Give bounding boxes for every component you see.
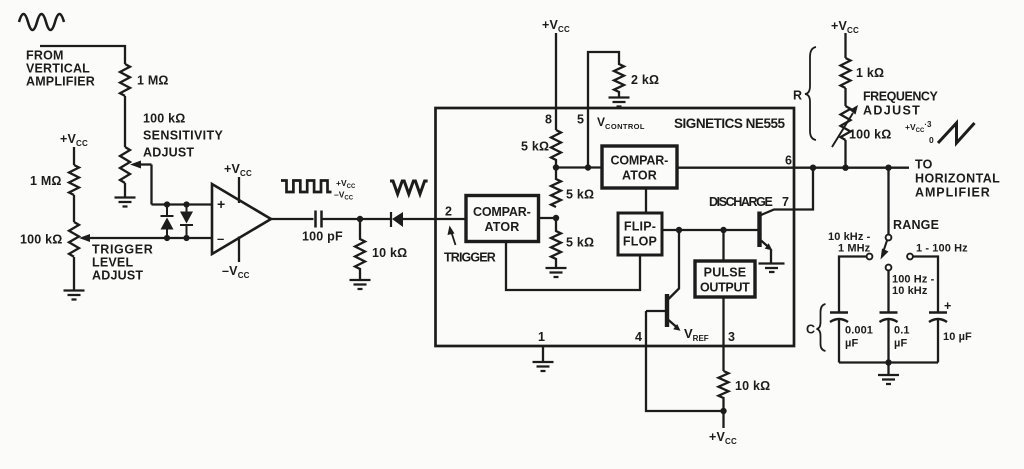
op-amp -Vcc pin (238, 237, 240, 263)
svg-text:100 pF: 100 pF (302, 230, 343, 244)
pin 5 wire with 2k bypass outside box (588, 52, 624, 168)
wire R2 to trigger pot (73, 195, 75, 222)
potentiometer 100k sensitivity (120, 147, 130, 183)
wire pot bottom to ground (124, 183, 126, 197)
ground under pin 1 (533, 362, 554, 371)
svg-text:COMPAR-: COMPAR- (473, 205, 531, 219)
switch contact middle (886, 265, 892, 271)
variable resistor 100k frequency adjust (841, 106, 851, 140)
svg-text:RANGE: RANGE (893, 218, 939, 232)
pin 4 wire to +Vcc node (646, 311, 724, 411)
junction divider middle (553, 215, 559, 221)
pulse output box (695, 261, 755, 297)
svg-text:1 - 100 Hz: 1 - 100 Hz (916, 243, 968, 255)
capacitor common rail (839, 361, 938, 363)
wire comparator bottom to flip-flop (506, 242, 640, 291)
wire +Vcc to 1k (844, 33, 846, 58)
pin 3 wire (722, 297, 724, 371)
diode D1 clamp (cathode up) (161, 205, 174, 239)
wire flip-flop to discharge transistor base (662, 229, 759, 231)
transistor Q2 discharge base bar (757, 212, 761, 248)
junction node at 10k (357, 216, 363, 222)
junction to pulse output (720, 227, 726, 233)
svg-text:100 kΩ: 100 kΩ (20, 233, 63, 247)
svg-text:5 kΩ: 5 kΩ (566, 188, 594, 202)
svg-text:ATOR: ATOR (484, 220, 519, 234)
resistor 1k (841, 58, 851, 88)
svg-text:FLIP-: FLIP- (624, 220, 656, 234)
svg-text:VERTICAL: VERTICAL (26, 62, 90, 76)
svg-text:100 kΩ: 100 kΩ (143, 112, 186, 126)
wire left contact to cap C1 (839, 257, 867, 313)
wire threshold comparator to flip-flop (645, 188, 647, 213)
transistor Q1 emitter with arrow (669, 320, 677, 327)
wire junction down to range switch pole (887, 168, 889, 235)
capacitor C1 0.001 uF (830, 313, 848, 323)
svg-text:10 kHz -: 10 kHz - (828, 231, 871, 243)
capacitor C 100 pF (316, 211, 322, 228)
svg-text:1 MΩ: 1 MΩ (137, 74, 169, 88)
svg-text:1 MHz: 1 MHz (838, 243, 871, 255)
sine wave input symbol (19, 14, 64, 30)
svg-text:PULSE: PULSE (704, 266, 747, 280)
wire 1k to variable resistor (844, 88, 846, 106)
svg-text:5: 5 (577, 113, 584, 127)
svg-text:µF: µF (845, 338, 858, 350)
svg-text:COMPAR-: COMPAR- (611, 154, 669, 168)
wire R1 to sensitivity pot (124, 96, 126, 147)
svg-text:FREQUENCY: FREQUENCY (863, 90, 938, 104)
svg-text:ATOR: ATOR (622, 169, 657, 183)
wire node to +Vcc label (722, 411, 724, 428)
transistor Q2 collector wire to pin7 node (761, 168, 813, 215)
svg-text:TO: TO (915, 158, 933, 172)
LEFT-SECTION (19, 14, 436, 300)
junction to Vref transistor (676, 227, 682, 233)
resistor divider 5k bottom (551, 218, 561, 268)
transistor Q1 Vref collector wire (669, 230, 680, 299)
node pin4/pin3 +Vcc (720, 408, 726, 414)
svg-text:10 kΩ: 10 kΩ (735, 379, 770, 393)
svg-text:6: 6 (785, 154, 792, 168)
wire right contact to cap C3 (913, 257, 938, 313)
svg-text:SIGNETICS NE555: SIGNETICS NE555 (674, 116, 785, 131)
svg-text:3: 3 (728, 330, 735, 344)
junction divider top (553, 164, 559, 170)
svg-text:+: + (944, 299, 951, 313)
op-amp +Vcc pin (238, 177, 240, 203)
svg-text:1: 1 (538, 330, 545, 344)
svg-text:0.001: 0.001 (845, 325, 873, 337)
ground under 10k (350, 280, 371, 289)
svg-text:4: 4 (635, 330, 642, 344)
wire wiper down to noninverting rail (150, 165, 152, 205)
arrow of variable resistor (832, 113, 853, 147)
IC NE555 outline box (436, 108, 795, 346)
svg-text:1 kΩ: 1 kΩ (856, 66, 884, 80)
wire pot bottom to ground (73, 257, 75, 290)
svg-text:7: 7 (782, 195, 789, 209)
potentiometer 100k trigger level (69, 222, 79, 257)
svg-text:AMPLIFIER: AMPLIFIER (26, 75, 95, 89)
spike wave symbol (390, 181, 428, 194)
svg-text:5 kΩ: 5 kΩ (521, 140, 549, 154)
ground under discharge emitter (759, 264, 785, 273)
op-amp U1 comparator triangle (212, 184, 271, 254)
wiper arrow trigger pot (79, 234, 90, 242)
wire +Vcc to R2 (73, 147, 75, 165)
svg-text:1 MΩ: 1 MΩ (30, 174, 62, 188)
transistor Q2 emitter with arrow (761, 241, 769, 248)
wire variable resistor to rail (844, 140, 846, 168)
svg-text:FROM: FROM (26, 49, 64, 63)
junction pin7 riser (810, 165, 816, 171)
svg-text:µF: µF (894, 338, 907, 350)
svg-text:100 Hz -: 100 Hz - (892, 274, 935, 286)
svg-text:–: – (217, 231, 224, 246)
svg-text:R: R (793, 89, 802, 103)
svg-text:AMPLIFIER: AMPLIFIER (915, 186, 990, 200)
svg-text:LEVEL: LEVEL (92, 256, 133, 270)
svg-text:ADJUST: ADJUST (143, 146, 194, 160)
wire from input to resistor R1 (40, 46, 125, 64)
diode D2 clamp (cathode down) (180, 205, 193, 239)
wire junction to diode D3 (360, 218, 392, 220)
switch wiper arm (884, 241, 888, 252)
ground under trigger pot (64, 291, 85, 300)
diode D3 series (points left) (391, 212, 436, 227)
resistor divider 5k top (551, 130, 561, 168)
svg-text:0: 0 (929, 135, 934, 145)
junction dots on input rails (164, 201, 170, 207)
wire into pin 2 (436, 218, 467, 220)
svg-text:100 kΩ: 100 kΩ (849, 128, 892, 142)
switch contact left (867, 254, 873, 260)
ground under sensitivity pot (115, 198, 136, 207)
wire divider to comparator and pin5 (556, 166, 602, 168)
pulse output feed wire (722, 230, 724, 261)
wire emitter to ground (770, 250, 772, 264)
svg-text:10 µF: 10 µF (943, 331, 972, 343)
svg-text:10 kHz: 10 kHz (892, 285, 928, 297)
IC-SECTION (436, 18, 910, 446)
svg-text:OUTPUT: OUTPUT (700, 281, 750, 295)
RIGHT-SECTION (793, 19, 1000, 384)
svg-text:2: 2 (445, 205, 452, 219)
svg-text:5 kΩ: 5 kΩ (566, 236, 594, 250)
svg-text:8: 8 (545, 113, 552, 127)
wire comparator output to divider (539, 217, 557, 219)
square wave symbol (281, 181, 331, 193)
wire op-amp output to coupling cap (271, 218, 314, 220)
svg-text:HORIZONTAL: HORIZONTAL (915, 172, 1000, 186)
wire to op-amp noninverting input (152, 203, 213, 205)
resistor R1 1 Mohm (120, 64, 130, 96)
svg-text:TRIGGER: TRIGGER (444, 251, 496, 265)
pin 6 wire out of comparator across box (677, 167, 909, 169)
wire middle contact to cap C2 (887, 271, 889, 313)
svg-text:ADJUST: ADJUST (92, 269, 143, 283)
switch contact right (907, 254, 913, 260)
transistor Q1 base wire from pin4 line (646, 310, 666, 312)
junction rail to ground (885, 359, 891, 365)
comparator U1a box (trigger) (466, 196, 539, 242)
resistor 10k to ground (355, 219, 365, 280)
svg-text:ADJUST: ADJUST (863, 104, 920, 118)
resistor divider 5k middle (551, 168, 561, 208)
svg-text:C: C (806, 323, 815, 337)
pin 1 ground wire (542, 346, 544, 362)
wire cap to junction (322, 218, 361, 220)
junction frequency chain (842, 165, 848, 171)
svg-text:FLOP: FLOP (623, 235, 657, 249)
svg-text:TRIGGER: TRIGGER (92, 243, 153, 257)
switch pole contact (886, 235, 892, 241)
junction range switch (885, 165, 891, 171)
flip-flop box (618, 213, 662, 255)
resistor R2 1 Mohm (69, 165, 79, 195)
capacitor C2 0.1 uF (880, 313, 898, 323)
transistor Q1 base bar (665, 294, 669, 327)
resistor 10k pull to Vcc (719, 371, 729, 411)
svg-text:+: + (217, 196, 225, 212)
wire to op-amp inverting input (87, 237, 212, 239)
svg-text:10 kΩ: 10 kΩ (372, 246, 407, 260)
sawtooth wave symbol (938, 123, 975, 143)
ground under 2k (609, 98, 630, 107)
wire rail to ground (887, 363, 889, 376)
svg-text:SENSITIVITY: SENSITIVITY (143, 129, 223, 143)
svg-text:DISCHARGE: DISCHARGE (709, 195, 773, 209)
ground under capacitor rail (878, 375, 899, 384)
svg-text:2 kΩ: 2 kΩ (631, 73, 659, 87)
comparator U1b box (threshold) (602, 146, 677, 188)
wire +Vcc to pin 8 into divider (555, 33, 557, 130)
svg-text:0.1: 0.1 (894, 325, 910, 337)
ground under divider (546, 268, 567, 277)
wiper arrow of sensitivity pot (138, 163, 152, 165)
